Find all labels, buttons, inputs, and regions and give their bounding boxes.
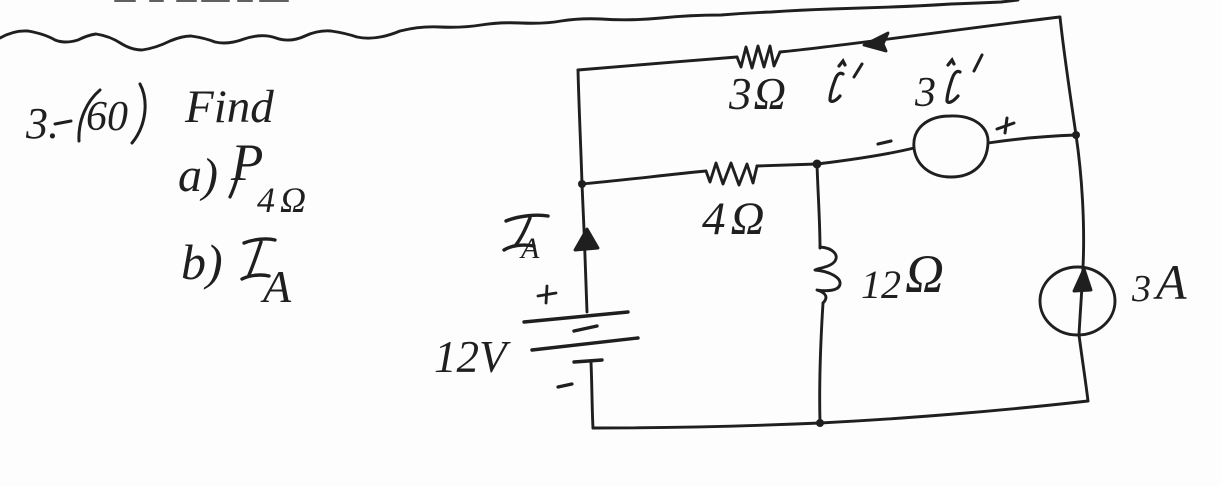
prime mark of i' label (854, 64, 862, 77)
wire: middle horizontal right segment (757, 164, 817, 166)
resistor R 3ohm (737, 46, 780, 68)
svg-text:4Ω: 4Ω (702, 193, 770, 245)
wire through current source (1079, 267, 1083, 335)
svg-text:A: A (1153, 254, 1187, 310)
arrowhead inside current source (1074, 269, 1091, 291)
svg-text:A: A (519, 232, 540, 265)
svg-text:Ω: Ω (905, 244, 944, 304)
wire: dependent source to right junction (988, 135, 1076, 143)
junction node middle (813, 160, 822, 169)
wire: right vertical lower (1079, 335, 1088, 401)
arrowhead IA (575, 229, 598, 250)
wire: middle to dependent source (817, 148, 914, 164)
battery plate 4 short (574, 360, 602, 362)
wire: top side right segment (780, 17, 1060, 52)
wire: right vertical upper (1060, 17, 1076, 135)
torn paper edge (0, 0, 1018, 50)
wire: bottom side (593, 401, 1088, 428)
minus sign of dependent source (878, 141, 891, 144)
svg-text:3: 3 (914, 70, 936, 116)
current source 3A circle (1040, 267, 1115, 335)
svg-text:a): a) (178, 149, 218, 202)
svg-text:60: 60 (86, 94, 128, 140)
wire: top side left segment (578, 57, 737, 70)
battery plate 2 short (574, 326, 597, 331)
arrowhead current i' (864, 33, 888, 51)
prime mark of 3i' label (974, 55, 982, 71)
wire: IA branch vertical (582, 184, 587, 312)
junction node right (1072, 131, 1080, 139)
svg-text:3Ω: 3Ω (728, 69, 788, 119)
text remnant at cut top edge (115, 0, 288, 2)
battery plate 1 long (524, 312, 628, 322)
svg-text:b): b) (181, 234, 223, 290)
label IA near arrow (handwritten I) (504, 215, 548, 250)
svg-text:A: A (260, 261, 292, 312)
svg-text:12V: 12V (434, 332, 511, 382)
junction node left middle (578, 180, 586, 188)
12 ohm resistor bottom wire (820, 303, 823, 423)
svg-text:3: 3 (1131, 268, 1151, 310)
junction node bottom (816, 419, 824, 427)
minus sign battery (558, 384, 572, 387)
12 ohm resistor squiggle (815, 247, 840, 303)
12 ohm resistor top wire (817, 164, 820, 248)
svg-text:12: 12 (861, 262, 901, 307)
wire: left vertical of top loop (578, 70, 582, 184)
wire: battery to bottom (591, 362, 593, 428)
battery plate 3 long (532, 338, 638, 350)
wire: right vertical middle (1076, 135, 1084, 267)
resistor R 4ohm (706, 163, 757, 185)
svg-text:Find: Find (184, 81, 274, 133)
wire: middle horizontal left segment (582, 171, 706, 184)
dependent source 3i' circle (914, 116, 988, 177)
plus sign of dependent source (997, 118, 1014, 133)
plus sign battery (538, 286, 556, 303)
label i' (handwritten i) (830, 61, 845, 101)
svg-text:4Ω: 4Ω (257, 180, 311, 220)
